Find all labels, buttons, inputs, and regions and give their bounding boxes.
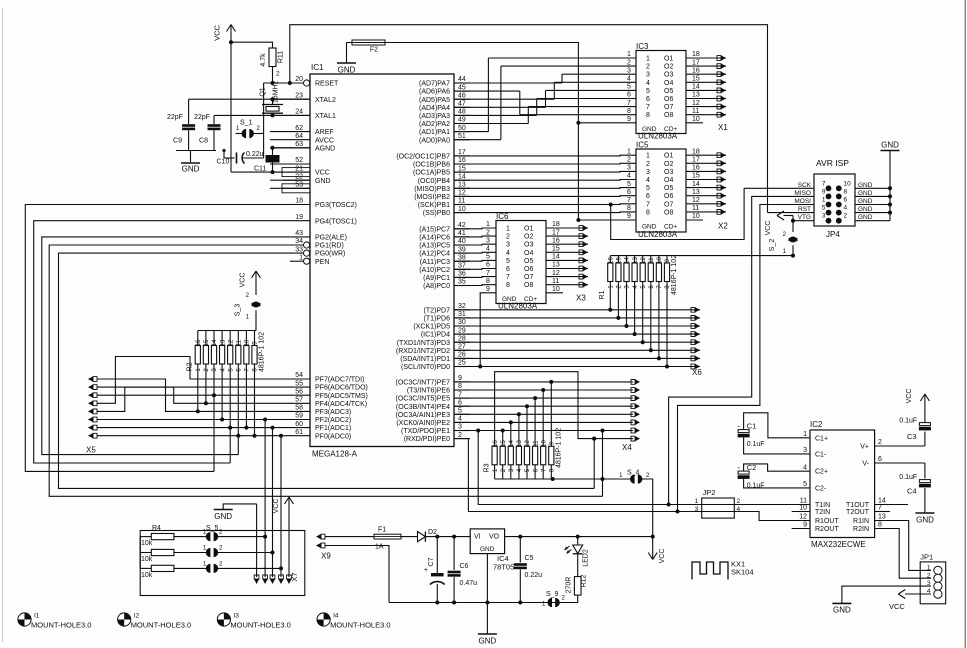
svg-text:10: 10 [844,180,852,187]
svg-text:11: 11 [237,339,243,346]
svg-text:CD+: CD+ [664,126,677,133]
svg-text:8: 8 [878,522,882,529]
X5 pin [88,417,97,422]
wire JP4 GND pin [855,186,892,190]
svg-text:17: 17 [692,59,700,66]
svg-text:14: 14 [212,339,218,346]
wire PE6 row to X4 [454,387,640,392]
capacitor C7 (electrolytic) [424,537,445,603]
svg-text:50: 50 [458,125,466,132]
svg-text:7: 7 [458,391,462,398]
IC1 right pin 46 (AD5)PA5 [419,92,470,103]
svg-text:4.7k: 4.7k [260,53,267,67]
push button S_4 [553,470,653,537]
svg-text:(OC3C/INT5)PE5: (OC3C/INT5)PE5 [396,396,451,403]
svg-text:8: 8 [646,209,650,216]
svg-text:PG4(TOSC1): PG4(TOSC1) [315,218,357,225]
svg-text:3: 3 [822,213,826,220]
wire IC5 output O2 pin 17 to connector [686,157,726,166]
svg-text:S_1: S_1 [240,120,253,127]
svg-text:1: 1 [927,564,931,571]
IC1 left pin 23 XTAL2 [270,92,336,103]
svg-text:C5: C5 [525,555,534,562]
wire IC5 output O3 pin 16 to connector [686,165,726,174]
wire IC3 output O8 pin 11 to connector [686,108,726,117]
svg-text:C2+: C2+ [815,469,828,476]
X7 pin 5 riser + power symbol VCC [273,497,294,584]
svg-text:14: 14 [692,84,700,91]
svg-text:3: 3 [627,67,631,74]
capacitor C5 0.22u [514,537,542,603]
wire IC6 output O1 pin 18 to connector [546,221,588,230]
svg-text:44: 44 [458,76,466,83]
svg-text:10k: 10k [141,556,153,563]
ground (X7) [214,504,257,521]
svg-text:GND: GND [480,546,495,553]
svg-text:4: 4 [627,76,631,83]
svg-text:MOUNT-HOLE3.0: MOUNT-HOLE3.0 [330,621,390,630]
svg-text:3: 3 [627,165,631,172]
svg-text:IC1: IC1 [311,63,324,72]
svg-text:IC2: IC2 [810,420,823,429]
X5 pin [88,433,97,438]
wire PD5 to connector X6 [454,282,700,329]
svg-text:(TXD/PDO)PE1: (TXD/PDO)PE1 [401,428,450,435]
push button S_2 [769,232,798,258]
svg-text:13: 13 [552,262,560,269]
capacitor C2 0.1uF [737,463,810,490]
wire IC6 output O4 pin 15 to connector [546,246,588,255]
svg-text:(OC3B/INT4)PE4: (OC3B/INT4)PE4 [396,404,450,411]
wire JP2.2 to T1IN [702,504,810,506]
IC1 right pin 16 (OC1B)PB6 [413,157,470,168]
connector X6 [692,368,702,377]
svg-text:X9: X9 [321,552,331,561]
svg-text:16: 16 [196,339,202,346]
svg-text:7: 7 [646,104,650,111]
svg-text:PG3(TOSC2): PG3(TOSC2) [315,202,357,209]
svg-text:O6: O6 [524,266,533,273]
IC1 right pin 10 (SS)PB0 [423,206,470,217]
svg-text:10: 10 [799,505,807,512]
IC3 input pin number 3 [627,67,631,74]
svg-text:49: 49 [458,117,466,124]
svg-text:O3: O3 [664,169,673,176]
connector X3 [576,294,586,303]
wire S_5 rows to X7 verticals [240,535,267,539]
wire riser PE1 net / S_4 / bus row 496.3 [601,429,605,497]
svg-text:13: 13 [517,440,523,447]
svg-text:O4: O4 [524,250,533,257]
svg-text:GND: GND [502,296,517,303]
svg-text:7: 7 [506,274,510,281]
push button (S_5 row) [203,546,240,558]
wire IC3 output O3 pin 16 to connector [686,67,726,76]
wire regulator output rail (+5V) [505,535,655,539]
X5 pin [88,385,97,390]
wire IC6 COM pin 10 [546,286,563,293]
svg-text:C4: C4 [907,487,917,496]
connector X4 [622,443,632,452]
wire R2 column tap [212,364,216,471]
resistor R12 270R [563,574,588,602]
svg-text:11: 11 [458,198,465,205]
wire PC0 to IC6 input 8 [454,284,496,287]
svg-text:7: 7 [646,201,650,208]
ground (IC1 top) [337,43,356,75]
capacitor C9 22pF [167,99,195,150]
svg-text:8: 8 [458,383,462,390]
svg-text:22pF: 22pF [167,114,183,121]
svg-text:(OC3C/INT7)PE7: (OC3C/INT7)PE7 [396,380,451,387]
svg-text:C10: C10 [217,159,230,166]
svg-text:(A15)PC7: (A15)PC7 [419,226,450,233]
svg-text:S_3: S_3 [235,304,242,317]
IC6 input pin number 2 [486,229,490,236]
svg-text:T1OUT: T1OUT [846,502,870,509]
svg-text:2: 2 [276,71,280,78]
wire X5.1 to PF3 [97,379,270,411]
svg-text:I2: I2 [134,613,140,620]
svg-text:2: 2 [458,432,462,439]
svg-text:(XCK0/AIN0)PE2: (XCK0/AIN0)PE2 [396,420,450,427]
IC1 right pin 15 (OC1A)PB5 [413,165,470,176]
wire PA4 to IC3 input 5 [454,90,636,107]
svg-text:LED2: LED2 [583,549,590,567]
wire JP1.3 to GND [832,586,931,614]
svg-text:45: 45 [458,84,466,91]
wire PC4 to IC6 input 4 [454,251,496,254]
JP4 GND label row 3 [858,198,873,205]
svg-text:O5: O5 [664,185,673,192]
svg-text:VI: VI [474,534,481,541]
IC3 input pin number 9 [627,116,631,123]
svg-text:PF3(ADC3): PF3(ADC3) [315,409,351,416]
mounting hole I1 MOUNT-HOLE3.0 [18,613,92,630]
wire PB6 to IC5 input 2 [454,162,636,165]
IC1 right pin 48 (AD3)PA3 [419,109,470,120]
push button (S_5 row) [203,561,240,573]
svg-text:4816P-1 102: 4816P-1 102 [259,332,266,372]
wire IC6 output O5 pin 14 to connector [546,254,588,263]
IC6 input pin number 5 [486,254,490,261]
svg-text:36: 36 [458,271,466,278]
JP4 signal label VTG [798,214,811,221]
svg-text:59: 59 [295,413,303,420]
capacitor C1 0.1uF [737,413,810,454]
wire X9 return to ground rail [325,546,389,603]
wire D2 to regulator [425,535,470,539]
IC1 right pin 5 (OC3A/AIN1)PE3 [396,408,470,419]
svg-text:R1: R1 [599,290,606,299]
IC1 left pin 1 PEN [290,254,329,265]
resistor network R1 4816P-1-102 [599,255,678,300]
boxed pin number 21 [282,168,310,177]
resistor R11 4.7k (reset pull-up) [260,48,285,78]
voltage regulator IC4 78T05 [470,529,514,572]
svg-text:1: 1 [803,431,807,438]
svg-text:VCC: VCC [315,170,330,177]
svg-text:1: 1 [646,56,650,63]
svg-text:30: 30 [458,319,466,326]
wire V+ to C3 [875,445,925,447]
svg-text:JP4: JP4 [826,230,840,239]
svg-text:O6: O6 [664,193,673,200]
svg-text:4: 4 [627,173,631,180]
wire PA3 to IC3 input 6 [454,99,636,116]
svg-text:12: 12 [799,514,807,521]
svg-text:(OC1B)PB6: (OC1B)PB6 [413,162,450,169]
svg-text:15: 15 [617,257,623,264]
svg-text:3: 3 [506,242,510,249]
svg-text:C1: C1 [747,422,757,431]
svg-text:2: 2 [927,572,931,579]
svg-text:AVCC: AVCC [315,137,334,144]
svg-text:6: 6 [646,96,650,103]
wire crystal caps to ground [176,151,216,163]
IC1 right pin 47 (AD4)PA4 [419,101,470,112]
IC1 left pin 21 VCC [270,165,330,176]
wire JP4 GND pin [855,194,892,198]
svg-text:GND: GND [338,66,356,75]
svg-text:O2: O2 [664,64,673,71]
power symbol VCC (down, +5V rail) [648,537,666,564]
svg-text:0.22u: 0.22u [246,151,264,158]
svg-text:31: 31 [458,311,466,318]
svg-text:17: 17 [458,149,466,156]
svg-text:10: 10 [245,339,251,346]
svg-text:1A: 1A [375,544,384,551]
svg-text:VCC: VCC [240,273,247,288]
wire PE3 row to X4 [454,412,640,417]
svg-text:AREF: AREF [315,129,334,136]
IC3 input pin number 8 [627,108,631,115]
JP4 GND label row 2 [858,190,873,197]
svg-text:T1IN: T1IN [815,502,830,509]
svg-text:42: 42 [458,222,466,229]
svg-text:O1: O1 [664,153,673,160]
IC3 input pin number 4 [627,76,631,83]
svg-text:(AD6)PA6: (AD6)PA6 [419,89,450,96]
svg-text:9: 9 [822,188,826,195]
wire PE0 to JP2 pin 3 [454,439,702,512]
svg-text:43: 43 [295,230,303,237]
svg-text:(MISO)PB3: (MISO)PB3 [414,186,450,193]
svg-text:14: 14 [552,254,560,261]
X5 pin [88,401,97,406]
svg-text:VO: VO [489,534,500,541]
svg-text:PG1(RD): PG1(RD) [315,243,344,250]
svg-text:0.1uF: 0.1uF [747,483,765,490]
svg-text:32: 32 [458,303,466,310]
svg-text:PF6(ADC6/TDO): PF6(ADC6/TDO) [315,385,368,392]
svg-text:4: 4 [646,80,650,87]
svg-text:(AD4)PA4: (AD4)PA4 [419,105,450,112]
IC1 right pin 2 (RXD/PDI)PE0 [404,432,470,443]
svg-text:C9: C9 [173,138,182,145]
fuse F2 [347,40,386,54]
svg-text:14: 14 [692,181,700,188]
svg-text:4: 4 [646,177,650,184]
svg-text:13: 13 [878,514,886,521]
svg-text:C6: C6 [460,563,469,570]
wire regulator GND + ground rail [389,554,578,634]
wire R2 column tap [244,364,248,430]
svg-text:R11: R11 [278,51,285,63]
svg-text:5: 5 [627,84,631,91]
svg-text:PF0(ADC0): PF0(ADC0) [315,433,351,440]
svg-text:(RXD/PDI)PE0: (RXD/PDI)PE0 [404,436,450,443]
svg-text:13: 13 [692,189,700,196]
wire PG bus net (pin row y=204.5) [25,205,270,472]
IC1 left pin 34 PG1(RD) [270,238,344,249]
svg-text:15: 15 [552,246,560,253]
X7 pin 3 riser to PF1 net [270,426,275,584]
svg-text:IC3: IC3 [636,42,649,51]
ground (regulator) [478,634,497,646]
wire R3 column tap [517,412,521,446]
svg-text:16: 16 [458,157,466,164]
svg-text:11: 11 [692,205,699,212]
svg-text:16: 16 [692,165,700,172]
push button S_9 [542,591,566,608]
svg-text:61: 61 [295,429,303,436]
svg-text:Q1: Q1 [260,87,267,96]
svg-text:18: 18 [295,198,303,205]
svg-text:(A10)PC2: (A10)PC2 [419,267,450,274]
connector X9 (power input) [316,534,331,561]
svg-text:55: 55 [295,380,303,387]
svg-text:6: 6 [878,456,882,463]
svg-text:O7: O7 [664,201,673,208]
svg-text:5: 5 [486,254,490,261]
power symbol VCC (R2 pull-up) [240,271,261,295]
svg-text:R3: R3 [484,463,491,472]
svg-text:7: 7 [486,270,490,277]
wire R2 column tap [253,364,257,438]
wire F2 to ULN ground chain [385,43,580,223]
svg-text:2: 2 [646,64,650,71]
wire X5.2 to PF4 [97,387,270,403]
wire R3 column tap [533,396,537,446]
driver IC5 ULN2803A [636,141,686,240]
wire IC3 output O6 pin 13 to connector [686,92,726,101]
wire JP1.4 to VCC [889,590,931,612]
svg-text:2: 2 [844,213,848,220]
svg-text:GND: GND [214,512,232,521]
svg-text:CD+: CD+ [664,223,677,230]
IC1 left pin 64 AVCC [270,133,334,144]
wire PC6 to IC6 input 2 [454,235,496,238]
IC1 right pin 9 (OC3C/INT7)PE7 [396,375,470,386]
svg-text:24: 24 [295,109,303,116]
svg-text:GND: GND [642,223,657,230]
IC3 input pin number 5 [627,84,631,91]
wire IC6 output O7 pin 12 to connector [546,270,588,279]
wire VCC branch to R11 [231,42,273,48]
svg-text:O8: O8 [664,209,673,216]
wire R2 column tap [220,364,224,422]
svg-text:8: 8 [646,112,650,119]
wire X5.5 to PF6 [97,387,270,411]
driver IC3 ULN2803A [636,42,686,141]
wire PG bus net (pin row y=236.9) [42,237,270,455]
wire R3 col1 detour to X4 row 8 [495,372,640,447]
wire PA7 to IC3 input 3 [454,74,636,83]
svg-text:GND: GND [315,178,331,185]
IC1 left pin 20 RESET [270,76,339,87]
svg-text:3: 3 [486,237,490,244]
svg-text:18: 18 [552,221,560,228]
svg-text:22pF: 22pF [194,114,210,121]
wire PA6 to IC3 input 8 [454,91,636,115]
capacitor C11 (VCC decoupling) [254,146,280,174]
IC1 right pin 11 (SCK)PB1 [418,198,470,209]
IC5 input pin number 1 [627,148,631,155]
svg-text:O4: O4 [664,177,673,184]
svg-text:-: - [737,463,740,472]
wire R11 to RESET net [264,67,304,86]
svg-text:4816P-1 102: 4816P-1 102 [671,255,678,295]
power symbol VCC (ISP VTG) [765,211,795,235]
svg-text:20: 20 [295,76,303,83]
resistor R6 10k [140,565,206,579]
resistor R5 10k [140,549,206,563]
sheet edge right [964,0,966,648]
wire IC5 output O8 pin 11 to connector [686,205,726,214]
IC1 left pin 60 PF1(ADC1) [270,421,351,432]
wire R2 column tap [204,364,208,405]
svg-text:O3: O3 [524,242,533,249]
svg-text:C1+: C1+ [815,435,828,442]
svg-text:(SCL/INT0)PD0: (SCL/INT0)PD0 [401,364,450,371]
JP4 GND label row 5 [858,214,873,221]
svg-text:O5: O5 [524,258,533,265]
svg-text:R4: R4 [152,525,161,532]
wire IC5 GND pin 9 [578,219,636,221]
IC1 right pin 29 (IC1)PD4 [421,327,470,338]
svg-text:33: 33 [295,246,303,253]
svg-text:(OC2/OC1C)PB7: (OC2/OC1C)PB7 [396,154,450,161]
IC1 left pin 19 PG4(TOSC1) [270,214,357,225]
svg-text:4: 4 [506,250,510,257]
IC1 left pin 63 AGND [270,141,335,152]
svg-text:16: 16 [493,440,499,447]
svg-text:14: 14 [878,498,886,505]
svg-text:R2IN: R2IN [853,526,869,533]
connector JP2 [695,488,741,518]
svg-text:R12: R12 [581,574,588,587]
svg-text:1: 1 [627,148,631,155]
svg-text:O8: O8 [524,282,533,289]
IC1 right pin 7 (OC3C/INT5)PE5 [396,391,470,402]
wire IC3 COM pin 10 [686,116,703,123]
svg-text:12: 12 [228,339,234,346]
svg-text:VCC: VCC [659,549,666,564]
svg-text:8: 8 [844,188,848,195]
svg-text:(RXD1/INT2)PD2: (RXD1/INT2)PD2 [396,348,450,355]
svg-text:(AD0)PA0: (AD0)PA0 [419,137,450,144]
svg-text:S_9: S_9 [546,591,559,598]
wire PD1 to connector X6 [454,282,700,362]
svg-text:(A14)PC6: (A14)PC6 [419,235,450,242]
IC1 left pin 56 PF5(ADC5/TMS) [270,388,368,399]
wire IC5 output O5 pin 14 to connector [686,181,726,190]
svg-text:R1OUT: R1OUT [815,518,839,525]
svg-text:(AD5)PA5: (AD5)PA5 [419,97,450,104]
svg-text:1: 1 [822,197,826,204]
svg-text:VCC: VCC [906,389,913,404]
